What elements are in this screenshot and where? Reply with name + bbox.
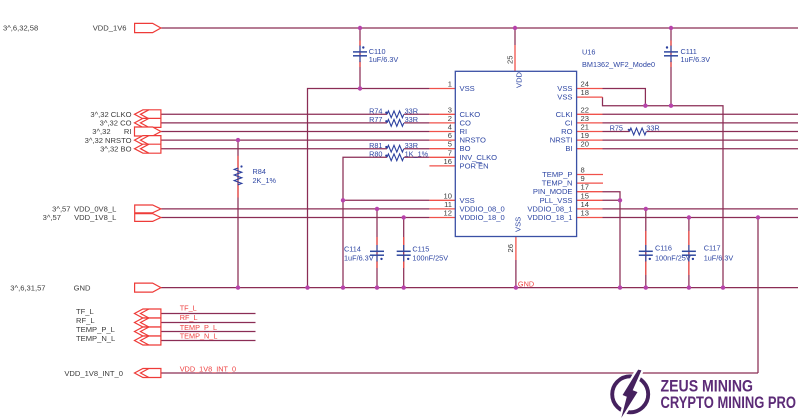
wire TEMP_N_L [161,340,256,342]
wire NRSTI [603,139,798,141]
wire VSS pin1 net [308,89,430,288]
node PLL_VSS/PIN_MODE [618,198,622,202]
pin stub 16 [429,165,455,167]
stub C110 leads [359,41,361,47]
text red net labels [180,280,534,374]
resistor R75 [630,128,647,135]
pin stub 6 [429,139,455,141]
svg-text:TF_L: TF_L [76,307,94,316]
pin stub 8 [577,174,603,176]
pin stub 13 [577,217,603,219]
pin stub 10 [429,199,455,201]
svg-text:13: 13 [581,209,589,218]
connector VDD_1V6 [135,23,161,32]
node GND/PLL_VSS [618,285,622,289]
pin stub 17 [577,191,603,193]
connector VDD_1V8_INT_0 [135,369,161,378]
svg-text:VSS: VSS [557,93,572,102]
pin stub 22 [577,113,603,115]
wire VDD_1V8_L [161,217,430,219]
capacitor C114 [370,245,384,262]
node VDDIO_18_1/C117 [687,215,691,219]
resistor R77 [387,120,404,127]
svg-text:RF_L: RF_L [180,313,198,322]
node GND/C114 [375,285,379,289]
pin stub 2 [429,122,455,124]
connector VDD_0V8_L / VDD_1V8_L double [135,205,161,213]
svg-text:1uF/6.3V: 1uF/6.3V [681,55,711,64]
svg-text:33R: 33R [646,124,659,133]
pin stub 14 [577,208,603,210]
node GND/pin26 [514,285,518,289]
wire C117 vertical [688,218,690,288]
svg-text:VDD: VDD [515,71,524,88]
svg-text:VDD_1V6: VDD_1V6 [93,24,127,33]
wire C115 vertical [403,218,405,288]
wire C110 vertical drop [359,28,361,89]
wire R84 vertical NRSTO to GND [237,140,239,288]
node VDD_1V6/C111 [669,26,673,30]
node VDD_1V6/pin25 [513,26,517,30]
wire CI [603,122,798,124]
node VDDIO_08_1/C116 [644,207,648,211]
connector GND [135,283,161,292]
stub C111 leads [670,41,672,47]
text pin numbers [444,56,589,253]
wire VDD_1V6 bus [161,27,798,29]
stub C115 leads [403,237,405,245]
svg-text:3^,6,31,57: 3^,6,31,57 [10,284,45,293]
svg-text:GND: GND [518,280,534,289]
pin stub 25 [514,45,516,71]
svg-text:TEMP_N_L: TEMP_N_L [180,332,218,341]
svg-text:VDD_1V8_INT_0: VDD_1V8_INT_0 [64,369,123,378]
wire VSS pins 24/18 to GND [603,89,646,106]
svg-text:VDD_1V8_INT_0: VDD_1V8_INT_0 [180,365,236,374]
node VSS/C111 [669,104,673,108]
pin stub 1 [429,88,455,90]
svg-text:3^,32 BO: 3^,32 BO [100,144,132,153]
svg-text:1uF/6.3V: 1uF/6.3V [344,253,374,262]
svg-text:POR EN: POR EN [460,161,489,170]
node VDD_1V8_L/C115 [402,215,406,219]
wire C116 vertical [645,209,647,288]
wire BI [603,148,798,150]
svg-text:20: 20 [581,140,589,149]
wire VDDIO_18_1 [603,217,798,219]
pin stub 20 [577,148,603,150]
node VDDIO_18_1/riser [756,215,760,219]
svg-text:TF_L: TF_L [180,304,197,313]
svg-text:1uF/6.3V: 1uF/6.3V [369,55,399,64]
connector RF_L [135,318,161,327]
pin stub 23 [577,122,603,124]
wire CLKO [161,113,387,115]
node GND/VSS10 [341,285,345,289]
pin stub 26 [515,237,517,261]
wire CO [161,122,387,124]
node VSS24/18 [643,104,647,108]
logo Zeus Mining [612,370,796,418]
wire RO / R75 [603,131,630,133]
node GND/VSS1 [305,285,309,289]
connector TEMP_P_L [135,327,161,336]
svg-text:R84: R84 [253,167,266,176]
svg-text:25: 25 [506,56,515,64]
connector CO [135,118,161,127]
connector TF_L [135,309,161,318]
node VDD_0V8_L/C114 [375,207,379,211]
svg-text:CRYPTO MINING PRO: CRYPTO MINING PRO [661,394,797,412]
wire VDD pin25 drop [514,28,516,45]
pin stub 24 [577,88,603,90]
pin stub 3 [429,113,455,115]
wire C114 vertical [376,209,378,288]
wire BO [161,148,387,150]
pin stub 15 [577,199,603,201]
node GND/C117 [687,285,691,289]
resistor R74 [387,111,404,118]
svg-text:R77: R77 [369,115,382,124]
svg-text:1uF/6.3V: 1uF/6.3V [704,254,734,263]
svg-text:12: 12 [444,209,452,218]
pin stub 19 [577,139,603,141]
svg-text:1: 1 [448,80,452,89]
svg-text:VSS: VSS [514,217,523,232]
wire VDD_1V8_INT_0 riser [757,218,759,374]
svg-text:U16: U16 [582,48,595,57]
svg-text:C117: C117 [704,244,721,253]
svg-text:100nF/25V: 100nF/25V [655,254,691,263]
svg-text:BI: BI [565,144,572,153]
wire VDD_1V8_INT_0 [161,372,758,374]
svg-text:C116: C116 [655,244,672,253]
wire TF_L [161,313,256,315]
svg-text:C114: C114 [344,245,361,254]
svg-text:GND: GND [74,284,91,293]
capacitor C111 [664,46,678,63]
stub R84 leads [237,156,239,168]
node GND/R84 [236,285,240,289]
node VSS/R80 [341,198,345,202]
connector RI [135,127,161,136]
IC U1 body [455,71,576,236]
svg-text:R80: R80 [369,150,382,159]
svg-text:26: 26 [506,244,515,252]
capacitor C116 [639,245,653,262]
connector CLKO [135,110,161,119]
capacitor C115 [397,245,411,262]
svg-text:33R: 33R [405,115,418,124]
resistor R80 [387,154,404,161]
connector BO [135,144,161,153]
svg-text:3^,6,32,58: 3^,6,32,58 [3,24,38,33]
capacitor C110 [353,46,367,63]
wire VDD_0V8_L [161,208,430,210]
wire RI [161,131,430,133]
pin stub 11 [429,208,455,210]
stub C117 leads [688,231,690,245]
text component labels [253,47,734,263]
stub C116 leads [645,231,647,245]
wire VSS pin10 [343,199,429,201]
text pin names [460,71,573,232]
resistor R81 [387,145,404,152]
svg-text:ZEUS MINING: ZEUS MINING [661,377,754,395]
svg-text:TEMP_N_L: TEMP_N_L [76,334,115,343]
svg-text:VDDIO_18_0: VDDIO_18_0 [460,213,505,222]
svg-text:1K_1%: 1K_1% [405,150,429,159]
pin stub 18 [577,96,603,98]
wire VDDIO_08_1 [603,208,798,210]
svg-text:TEMP_P_L: TEMP_P_L [76,325,115,334]
node GND/C116 [644,285,648,289]
svg-text:C115: C115 [412,245,429,254]
resistor R84 [234,168,242,185]
wire VSS pin26 to GND [515,260,517,288]
wire GND bus [161,287,798,289]
node VSS/C110 [358,86,362,90]
svg-text:16: 16 [444,157,452,166]
svg-text:18: 18 [581,88,589,97]
node VDD_1V6/C110 [358,26,362,30]
capacitor C117 [682,245,696,262]
connector NRSTO [135,136,161,145]
svg-text:RF_L: RF_L [76,316,95,325]
svg-text:2K_1%: 2K_1% [253,176,277,185]
pin stub 4 [429,131,455,133]
wire C111 vertical [670,28,672,106]
svg-text:3^,57: 3^,57 [43,213,61,222]
node GND/C115 [402,285,406,289]
text black labels [3,24,132,379]
pin stub 9 [577,182,603,184]
svg-text:VDD_1V8_L: VDD_1V8_L [74,213,116,222]
node NRSTO/R84 [236,138,240,142]
node GND/VSS24 [721,285,725,289]
wire PLL_VSS to GND [603,200,621,287]
pin stub 21 [577,131,603,133]
svg-text:R75: R75 [610,124,623,133]
wire CLKI [603,113,798,115]
wire RF_L [161,322,256,324]
wire TEMP_P_L [161,331,256,333]
svg-text:BM1362_WF2_Mode0: BM1362_WF2_Mode0 [582,60,655,69]
wire INV_CLKO / R80 to VSS [343,157,387,200]
pin stub 12 [429,217,455,219]
svg-text:VDDIO_18_1: VDDIO_18_1 [527,213,572,222]
connector TEMP_N_L [135,336,161,345]
svg-text:100nF/25V: 100nF/25V [412,253,448,262]
pin stub 5 [429,148,455,150]
stub C114 leads [376,237,378,245]
wire PIN_MODE [603,192,621,201]
pin stub 7 [429,156,455,158]
svg-text:VSS: VSS [460,84,475,93]
wire NRSTO [161,139,430,141]
